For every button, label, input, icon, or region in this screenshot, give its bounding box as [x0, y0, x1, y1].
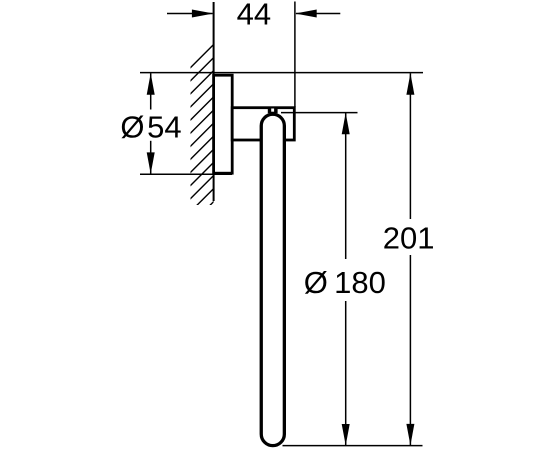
dimension Ø54 line with arrows: [147, 73, 155, 174]
svg-text:Ø 54: Ø 54: [120, 109, 181, 144]
bottom extension line of Ø54 (y=174.3): [140, 173, 232, 175]
wall hatching: [185, 38, 220, 230]
extension line from ring top to Ø180 dimension: [281, 112, 358, 114]
dimension 44 left arrow: [167, 10, 213, 18]
svg-text:44: 44: [237, 0, 271, 32]
dimension 201 line with arrows: [406, 73, 414, 445]
bottom extension line (ring bottom tangent): [283, 445, 423, 447]
svg-text:201: 201: [383, 220, 435, 255]
pivot pin notch: [271, 109, 274, 112]
top extension line (y=72.6): [140, 72, 423, 74]
rosette wall plate (side view): [214, 75, 233, 173]
right extension line of dim 44: [294, 2, 296, 108]
pivot pin clamp: [268, 107, 278, 114]
towel ring tube (side view): [261, 114, 284, 445]
dimension 44 right arrow: [295, 10, 340, 18]
wall line (also left extension line of dim 44): [213, 2, 215, 201]
holder arm: [232, 108, 294, 140]
dimension Ø180 line with arrows: [342, 113, 350, 446]
svg-text:Ø 180: Ø 180: [304, 265, 386, 300]
